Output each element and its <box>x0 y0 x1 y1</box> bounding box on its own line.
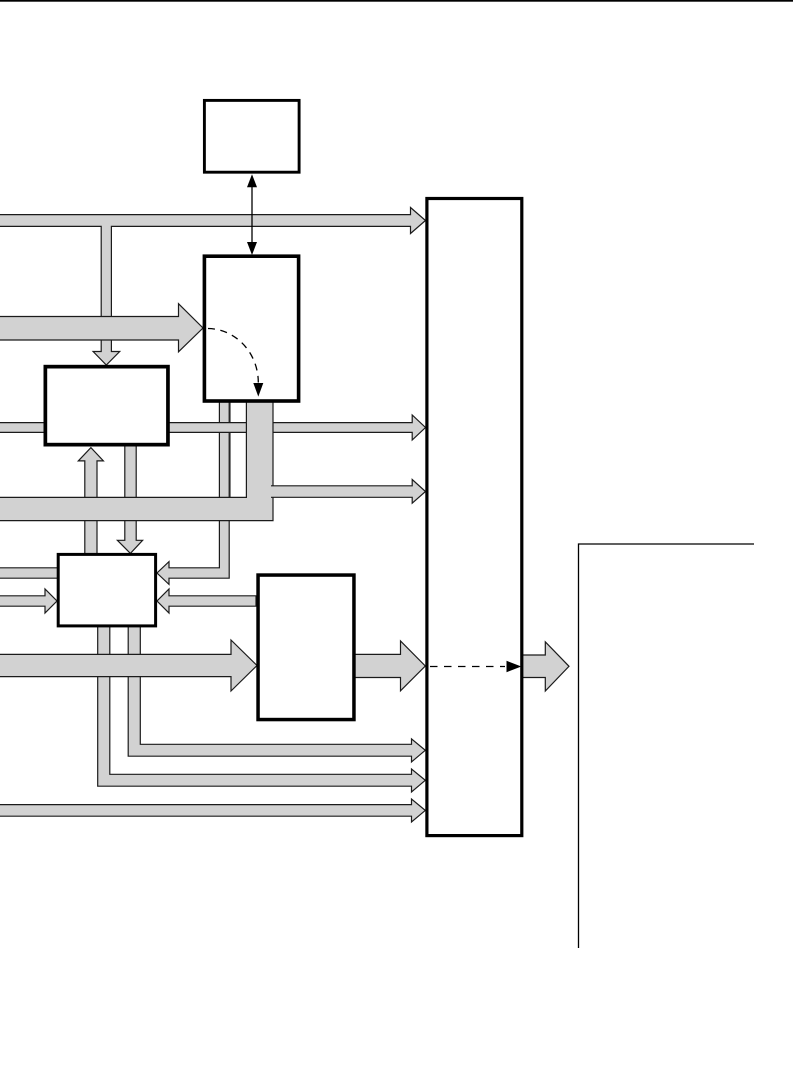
bus: arrow bus into block D left (lower) <box>0 589 57 613</box>
bus: horizontal bus from block C right to tall block (arrow) <box>168 415 426 440</box>
bus: horizontal bus from wide vertical bus to tall block (arrow) <box>271 480 426 504</box>
bus: horizontal bus segment left of block C <box>0 423 46 433</box>
bus: thick bus from block E right into tall block (big arrow) <box>354 641 426 691</box>
wire: extra edge line right of narrow bus under block B <box>229 400 231 497</box>
corner bracket line lower right <box>579 544 755 948</box>
tall block <box>427 199 522 836</box>
bus: L bus from block D bottom right-turning to ALU arrow (upper) <box>128 625 425 762</box>
bus: vertical bus from block D top up into block C bottom (arrow up) <box>78 448 103 555</box>
bus: plain bus into block D left (upper) <box>0 568 59 578</box>
bus: top bus from left edge into tall block with branch down into block C (arrows) <box>0 208 426 366</box>
block C <box>45 367 168 445</box>
thin double-headed arrow between block A and block B <box>247 174 257 255</box>
bus: wide horizontal bus merging into wide vertical bus under block B <box>0 400 273 521</box>
bus: bottom bus from left edge into tall block (arrow) <box>0 799 425 822</box>
block D <box>58 554 155 626</box>
bus: L bus from block D bottom right-turning to ALU arrow (lower) <box>98 625 426 792</box>
dashed arc arrow inside block B <box>208 329 263 397</box>
bus: arrow bus from block E left into block D right <box>157 589 256 613</box>
bus: narrow bus from block B down, turning left into block D (arrow into D right side) <box>157 400 229 584</box>
bus: exit arrow from tall block right edge <box>522 642 569 691</box>
block E <box>258 575 354 720</box>
block A <box>204 100 299 172</box>
top rule <box>0 0 793 2</box>
bus: thick bus from left into block B (big arrow) <box>0 304 203 352</box>
dashed arrow inside tall block to exit arrow <box>430 661 521 672</box>
bus: thick bus from left into block E (big arrow) <box>0 640 257 691</box>
block B <box>204 256 298 401</box>
bus: vertical bus from block C bottom down into block D top (arrow down) <box>117 445 142 553</box>
